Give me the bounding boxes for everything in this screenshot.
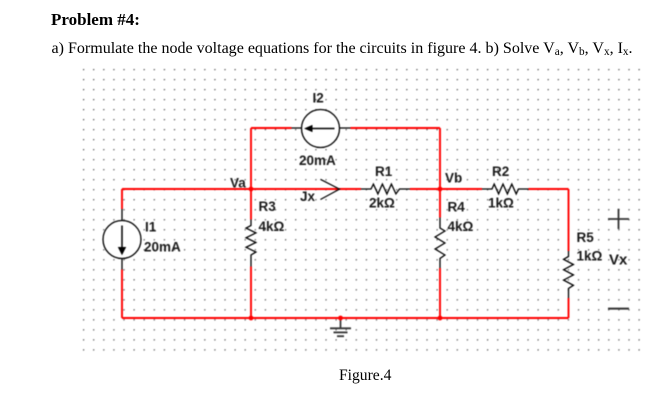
resistor R4: [435, 200, 473, 269]
wire main horizontal left (through Va): [122, 188, 361, 190]
wire top loop right of I2: [351, 127, 441, 129]
wire top loop left of I2: [251, 127, 292, 129]
question text: [52, 40, 633, 58]
junction bottom of R4: [438, 316, 443, 321]
wire R3 down to bottom: [250, 267, 252, 319]
resistor R1: [361, 164, 410, 211]
wire right vertical below R5: [568, 298, 570, 318]
svg-text:R1: R1: [375, 164, 393, 179]
svg-text:Jx: Jx: [300, 189, 316, 204]
ground: [330, 318, 351, 336]
resistor R2: [482, 164, 529, 211]
wire Va up to top loop: [250, 128, 252, 189]
svg-text:I1: I1: [145, 220, 157, 235]
resistor R3: [246, 199, 284, 267]
caption Figure.4: [339, 367, 391, 385]
title Problem #4:: [51, 10, 140, 30]
svg-text:R3: R3: [259, 199, 277, 214]
svg-text:4kΩ: 4kΩ: [448, 219, 474, 234]
svg-text:1kΩ: 1kΩ: [488, 196, 514, 211]
label Vx: [609, 252, 628, 269]
wire R4 down to bottom: [439, 268, 441, 318]
svg-text:R5: R5: [577, 230, 595, 245]
svg-text:Vb: Vb: [445, 171, 462, 186]
plus sign Vx polarity: [608, 209, 629, 229]
node Vb: [438, 171, 463, 192]
wire main horizontal right of R2: [529, 188, 569, 190]
svg-text:Vx: Vx: [609, 252, 628, 269]
current source I2: [292, 91, 351, 169]
svg-text:R2: R2: [492, 164, 509, 179]
svg-text:1kΩ: 1kΩ: [577, 249, 603, 264]
svg-text:4kΩ: 4kΩ: [259, 219, 285, 234]
svg-text:20mA: 20mA: [144, 240, 181, 255]
node Va: [230, 176, 253, 192]
wire main horizontal between R1 and R2: [410, 188, 482, 190]
wire Va down to R3: [250, 189, 252, 220]
current arrow Jx: [300, 179, 340, 204]
wire left vertical above I1: [121, 189, 123, 209]
svg-text:2kΩ: 2kΩ: [369, 196, 395, 211]
current source I1: [103, 209, 181, 270]
svg-text:Va: Va: [230, 176, 246, 191]
svg-text:20mA: 20mA: [299, 153, 336, 168]
svg-text:I2: I2: [313, 91, 324, 106]
svg-text:R4: R4: [448, 200, 466, 215]
minus sign Vx polarity: [608, 308, 629, 310]
wire left vertical below I1: [121, 270, 123, 319]
wire bottom horizontal: [122, 317, 569, 319]
wire right vertical above R5: [568, 189, 570, 251]
wire top loop down to Vb: [439, 128, 441, 189]
junction bottom of R3: [249, 316, 254, 321]
junction ground: [338, 316, 343, 321]
wire Vb down to R4: [439, 189, 441, 218]
resistor R5: [564, 230, 603, 298]
